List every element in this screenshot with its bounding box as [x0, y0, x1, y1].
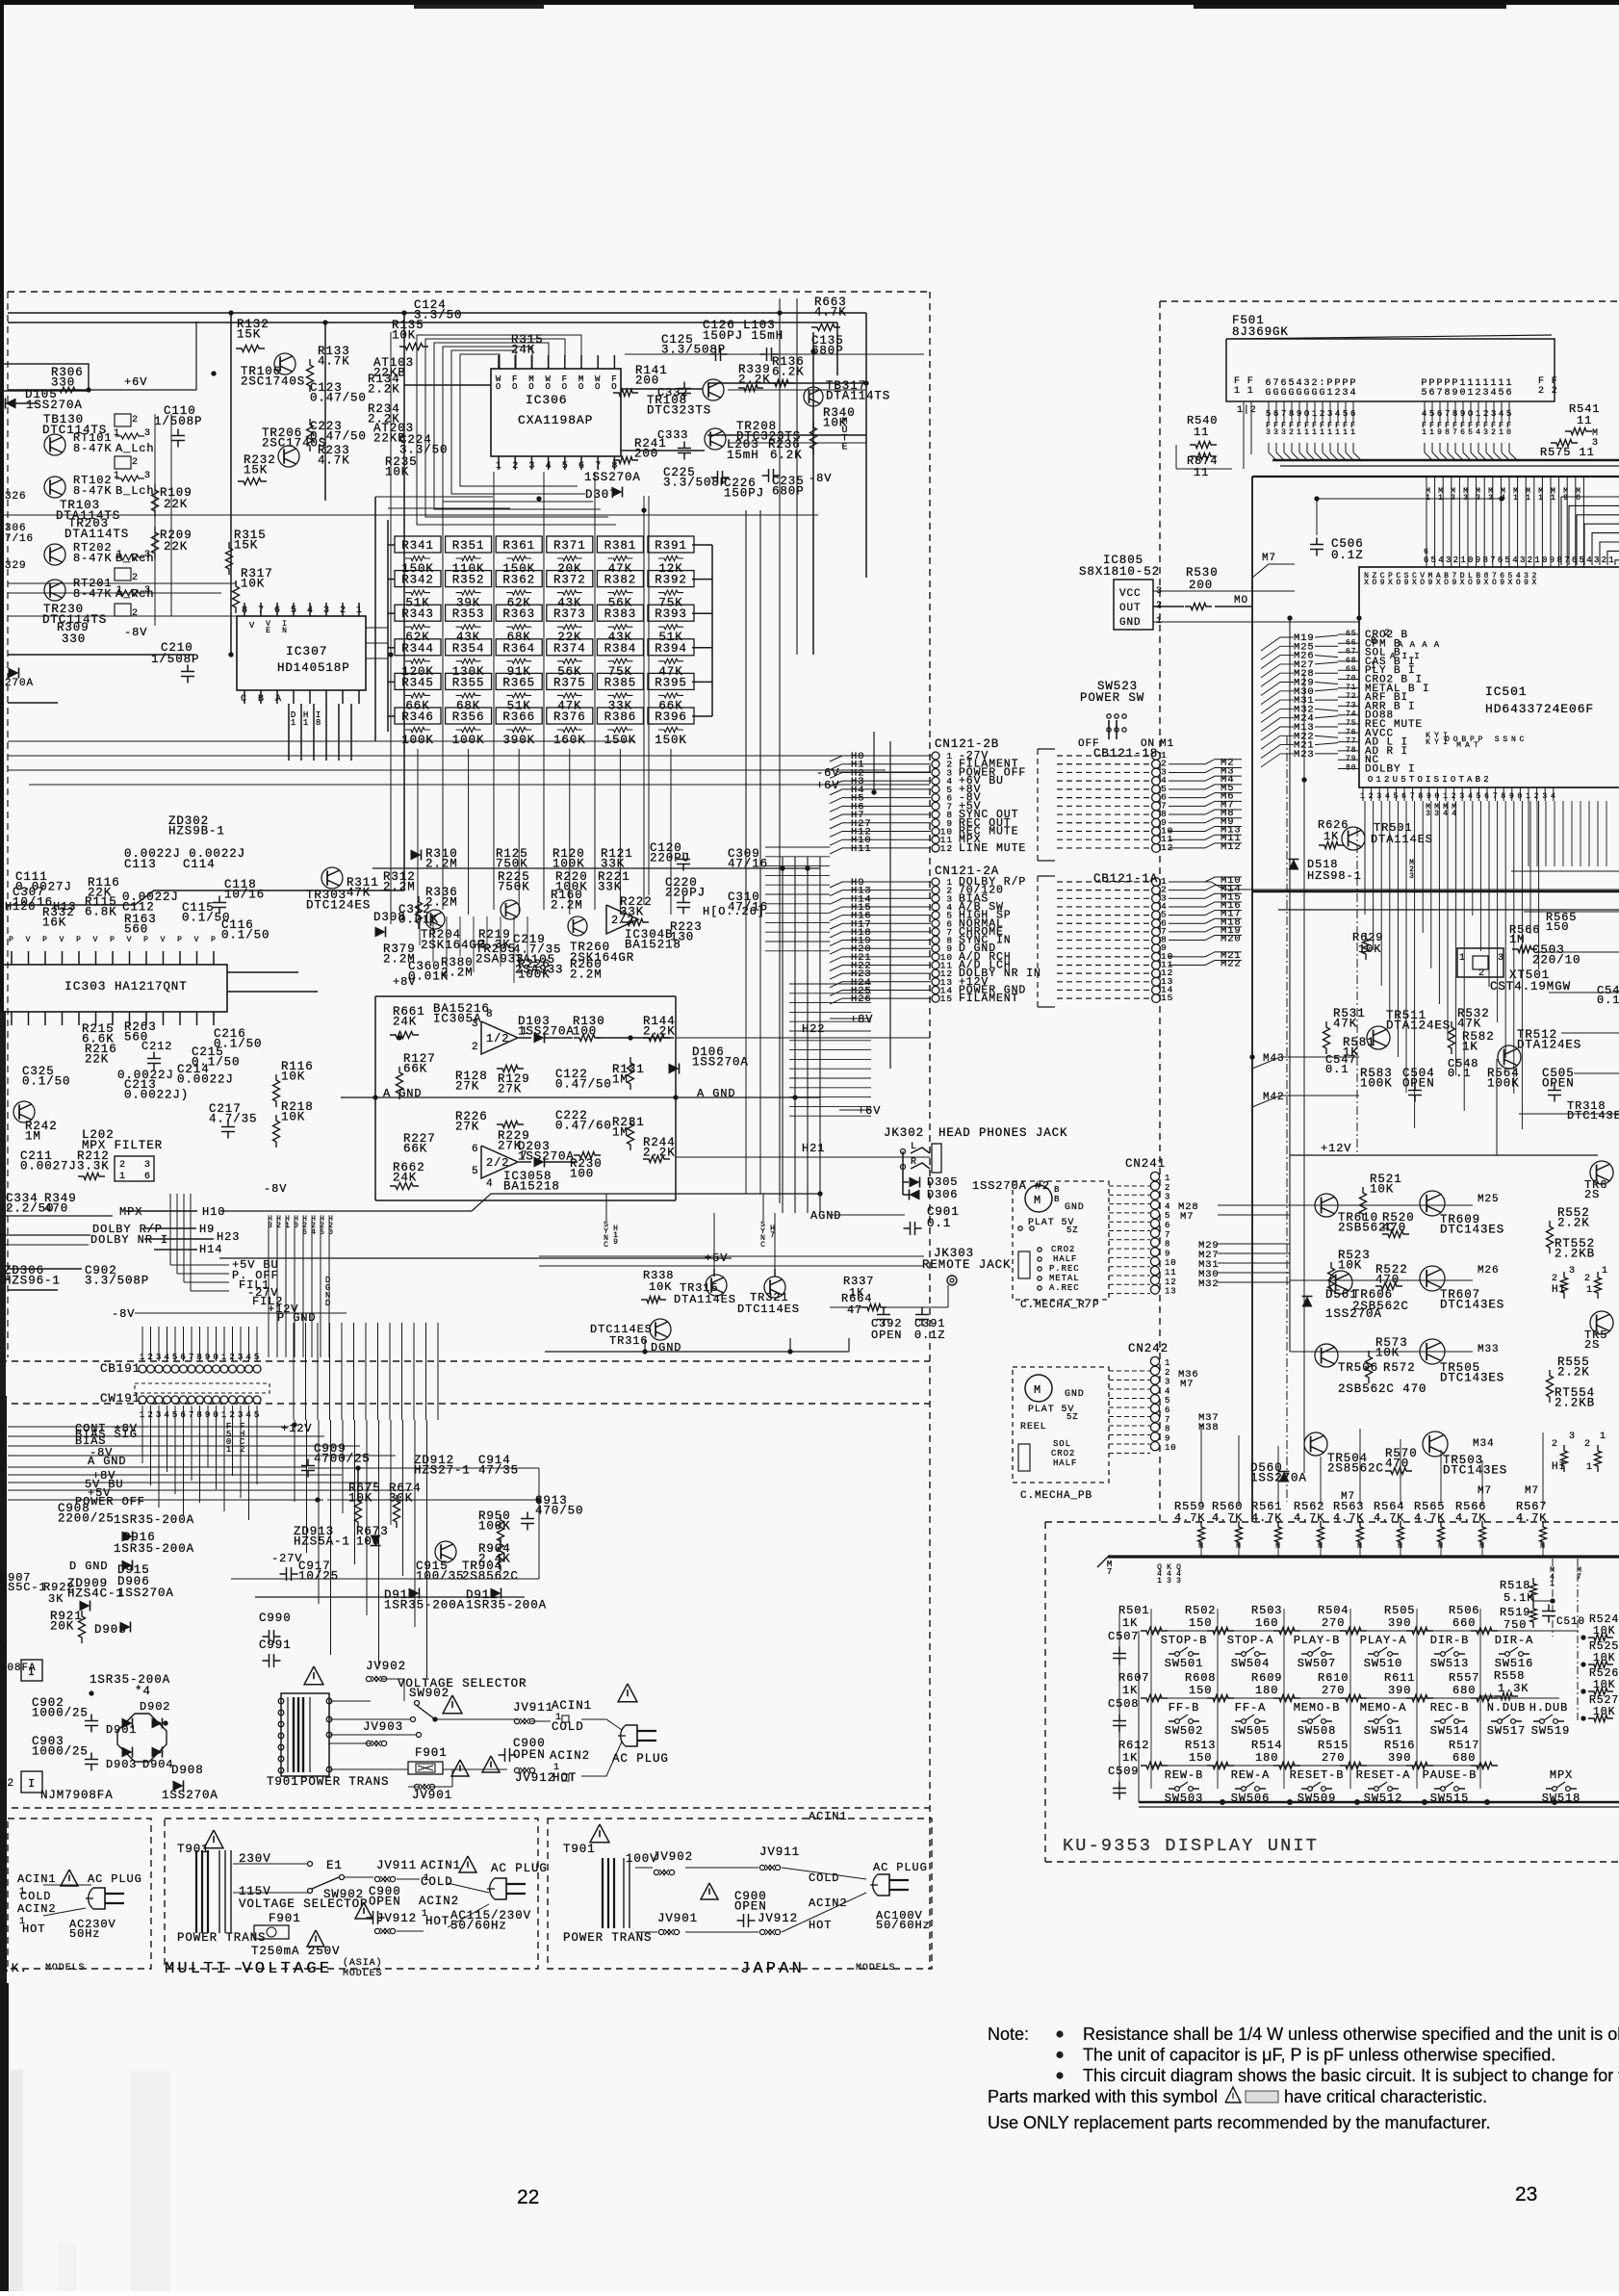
svg-text:1.3K: 1.3K	[1498, 1682, 1529, 1695]
svg-text:JV902: JV902	[366, 1660, 406, 1673]
svg-text:MEMO-A: MEMO-A	[1360, 1701, 1407, 1715]
svg-text:15K: 15K	[234, 538, 258, 552]
svg-text:0: 0	[1506, 428, 1512, 437]
svg-text:1: 1	[1312, 409, 1318, 419]
svg-text:O: O	[578, 382, 584, 392]
svg-text:T901: T901	[267, 1775, 299, 1789]
svg-text:R572: R572	[1383, 1361, 1416, 1375]
svg-text:1: 1	[116, 550, 123, 560]
svg-text:0.1: 0.1	[927, 1217, 951, 1230]
svg-text:ACIN2: ACIN2	[17, 1902, 57, 1916]
svg-text:T901: T901	[177, 1843, 210, 1856]
svg-text:5Z: 5Z	[1066, 1412, 1079, 1422]
svg-text:R355: R355	[452, 676, 485, 689]
svg-text:2SA933: 2SA933	[475, 952, 524, 966]
svg-text:M33: M33	[1478, 1344, 1500, 1355]
svg-text:4: 4	[1468, 792, 1474, 801]
svg-text:G: G	[1304, 388, 1311, 399]
svg-text:H26: H26	[851, 993, 872, 1005]
svg-text:1: 1	[1422, 428, 1427, 437]
svg-text:C: C	[241, 694, 247, 705]
svg-text:C507: C507	[1108, 1630, 1139, 1643]
svg-text:8-47K: 8-47K	[73, 484, 113, 498]
svg-text:HOT: HOT	[425, 1915, 450, 1928]
svg-text:3: 3	[1176, 1577, 1182, 1586]
svg-text:4: 4	[1551, 792, 1556, 801]
svg-text:C114: C114	[183, 858, 216, 871]
svg-text:DTC143ES: DTC143ES	[1440, 1223, 1504, 1236]
svg-text:1: 1	[221, 1353, 227, 1362]
svg-text:1: 1	[1157, 1577, 1163, 1586]
svg-text:5: 5	[1266, 409, 1272, 419]
svg-text:1: 1	[1499, 428, 1504, 437]
svg-text:390: 390	[1388, 1751, 1411, 1765]
svg-text:K: K	[1426, 738, 1431, 747]
svg-text:HEAD PHONES JACK: HEAD PHONES JACK	[938, 1126, 1067, 1140]
svg-text:DOLBY NR I: DOLBY NR I	[90, 1233, 168, 1247]
svg-text:M7: M7	[1525, 1485, 1539, 1497]
svg-text:SW514: SW514	[1430, 1724, 1470, 1738]
svg-text:X: X	[1484, 579, 1490, 587]
svg-text:1: 1	[119, 1172, 126, 1182]
svg-text:B: B	[1054, 1185, 1060, 1195]
svg-text:1M: 1M	[612, 1125, 629, 1139]
svg-text:Resistance shall be 1/4 W unle: Resistance shall be 1/4 W unless otherwi…	[1083, 2025, 1619, 2044]
svg-text:O: O	[1420, 579, 1426, 587]
svg-text:9: 9	[1437, 428, 1443, 437]
svg-text:O: O	[1492, 579, 1498, 587]
svg-text:SW507: SW507	[1298, 1657, 1337, 1670]
svg-text:33K: 33K	[598, 880, 622, 893]
svg-text:1|2: 1|2	[1237, 404, 1257, 416]
svg-text:6: 6	[1424, 555, 1429, 565]
svg-text:IC306: IC306	[526, 393, 568, 407]
svg-text:2: 2	[1335, 388, 1342, 399]
svg-text:9: 9	[1524, 579, 1529, 587]
svg-text:have critical characteristic.: have critical characteristic.	[1284, 2087, 1487, 2106]
svg-text:F901: F901	[269, 1912, 301, 1925]
svg-text:M32: M32	[1198, 1278, 1220, 1290]
svg-text:OFF: OFF	[1078, 738, 1100, 750]
svg-text:9: 9	[1426, 792, 1432, 801]
svg-text:9: 9	[1476, 579, 1481, 587]
svg-text:REW-B: REW-B	[1165, 1768, 1204, 1782]
svg-text:1: 1	[1526, 494, 1531, 503]
svg-text:N: N	[1511, 735, 1517, 744]
svg-text:H11: H11	[851, 843, 872, 855]
svg-text:IC303: IC303	[64, 979, 107, 993]
svg-text:67: 67	[1346, 648, 1356, 657]
svg-text:4: 4	[1422, 409, 1427, 419]
svg-text:8: 8	[1165, 1425, 1170, 1434]
svg-text:47/16: 47/16	[728, 900, 768, 914]
svg-text:DTA124ES: DTA124ES	[1517, 1038, 1581, 1051]
svg-text:22K: 22K	[164, 498, 188, 511]
svg-text:JV903: JV903	[363, 1720, 403, 1734]
svg-text:R558: R558	[1494, 1669, 1525, 1683]
svg-text:6: 6	[1429, 388, 1436, 399]
svg-text:RESET-A: RESET-A	[1356, 1768, 1411, 1782]
svg-text:5: 5	[1506, 409, 1512, 419]
svg-text:DTA124ES: DTA124ES	[1386, 1019, 1451, 1032]
svg-text:R362: R362	[502, 574, 535, 587]
svg-text:5: 5	[291, 606, 297, 616]
svg-text:680: 680	[1452, 1684, 1476, 1697]
svg-text:5: 5	[172, 1353, 178, 1362]
svg-text:6: 6	[472, 1144, 479, 1155]
svg-text:R609: R609	[1251, 1671, 1282, 1685]
svg-text:X: X	[1364, 579, 1370, 587]
svg-text:5: 5	[1468, 428, 1474, 437]
svg-text:150K: 150K	[604, 734, 637, 747]
svg-text:ACIN2: ACIN2	[550, 1749, 590, 1763]
svg-text:9: 9	[1500, 579, 1505, 587]
svg-text:4: 4	[1350, 388, 1357, 399]
svg-text:R557: R557	[1449, 1671, 1479, 1685]
svg-text:3: 3	[1266, 428, 1272, 437]
svg-text:6: 6	[274, 606, 281, 616]
svg-text:6: 6	[1165, 1221, 1170, 1230]
svg-text:10K: 10K	[281, 1070, 305, 1083]
svg-text:0.1/50: 0.1/50	[22, 1074, 70, 1088]
svg-text:DTC143ES: DTC143ES	[1440, 1298, 1504, 1311]
svg-text:R364: R364	[502, 642, 535, 656]
svg-text:150: 150	[1189, 1684, 1212, 1697]
svg-text:150K: 150K	[655, 734, 687, 747]
svg-text:6: 6	[1165, 1406, 1170, 1415]
svg-text:5Z: 5Z	[1066, 1225, 1079, 1235]
svg-text:R374: R374	[553, 642, 586, 656]
svg-text:0.47/60: 0.47/60	[555, 1119, 612, 1132]
svg-text:47K: 47K	[1457, 1017, 1481, 1030]
svg-text:66K: 66K	[403, 1062, 427, 1075]
svg-text:8-47K: 8-47K	[73, 552, 113, 565]
svg-text:TR506: TR506	[1338, 1361, 1378, 1375]
svg-text:R503: R503	[1251, 1604, 1282, 1617]
svg-text:1M: 1M	[25, 1129, 41, 1143]
svg-text:1SS270A: 1SS270A	[26, 399, 83, 412]
svg-text:1K: 1K	[1122, 1616, 1138, 1630]
svg-text:9: 9	[1404, 579, 1410, 587]
svg-text:R345: R345	[401, 676, 434, 689]
svg-text:M7: M7	[1180, 1211, 1194, 1223]
svg-text:80: 80	[1346, 764, 1356, 773]
svg-text:1: 1	[1602, 1266, 1608, 1277]
svg-text:12: 12	[1165, 1277, 1177, 1287]
svg-text:D908: D908	[171, 1764, 204, 1777]
svg-text:4.7K: 4.7K	[318, 354, 350, 368]
svg-text:CN242: CN242	[1128, 1342, 1169, 1355]
svg-text:REMOTE JACK: REMOTE JACK	[922, 1258, 1011, 1272]
svg-text:JV911: JV911	[759, 1845, 800, 1859]
svg-text:1: 1	[140, 1353, 145, 1362]
svg-text:AC PLUG: AC PLUG	[491, 1862, 548, 1875]
svg-text:1: 1	[1165, 1358, 1170, 1368]
svg-text:A A A A: A A A A	[1398, 640, 1440, 650]
svg-text:HD6433724E06F: HD6433724E06F	[1485, 702, 1594, 716]
svg-text:AGND: AGND	[810, 1209, 841, 1223]
svg-text:JK302: JK302	[884, 1126, 924, 1140]
svg-text:C508: C508	[1108, 1697, 1139, 1711]
svg-text:0.1Z: 0.1Z	[1331, 549, 1364, 562]
svg-text:330: 330	[62, 632, 86, 646]
svg-text:8: 8	[1501, 792, 1506, 801]
svg-text:11: 11	[1194, 466, 1209, 479]
svg-text:4: 4	[1165, 1386, 1170, 1396]
svg-text:2S8562C: 2S8562C	[462, 1569, 519, 1583]
svg-text:MODELS: MODELS	[45, 1963, 85, 1974]
svg-text:76: 76	[1346, 728, 1356, 736]
svg-text:R363: R363	[502, 607, 535, 621]
svg-text:3: 3	[1520, 555, 1526, 565]
svg-text:6: 6	[1273, 409, 1279, 419]
svg-text:6.2K: 6.2K	[770, 449, 803, 462]
svg-text:SW519: SW519	[1531, 1724, 1571, 1738]
svg-text:OPEN: OPEN	[1542, 1076, 1575, 1090]
svg-text:8: 8	[196, 1353, 202, 1362]
svg-text:R517: R517	[1449, 1739, 1479, 1752]
svg-text:+6V: +6V	[816, 779, 839, 792]
svg-text:C.MECHA_PB: C.MECHA_PB	[1020, 1490, 1092, 1502]
svg-text:X: X	[1412, 579, 1418, 587]
svg-text:R343: R343	[401, 607, 434, 621]
svg-text:ACIN1: ACIN1	[17, 1872, 57, 1886]
svg-text:T250mA 250V: T250mA 250V	[251, 1945, 340, 1958]
svg-text:AC PLUG: AC PLUG	[612, 1752, 669, 1766]
svg-text:66K: 66K	[403, 1142, 427, 1155]
svg-text:1: 1	[291, 718, 296, 728]
svg-text:2: 2	[1453, 555, 1459, 565]
svg-text:8: 8	[1556, 555, 1562, 565]
svg-text:1: 1	[1551, 494, 1556, 503]
svg-text:73: 73	[1346, 701, 1356, 709]
svg-text:R610: R610	[1318, 1671, 1349, 1685]
svg-text:R608: R608	[1185, 1671, 1216, 1685]
svg-text:O: O	[1372, 579, 1377, 587]
svg-text:R375: R375	[553, 676, 586, 689]
svg-text:-8V: -8V	[264, 1182, 287, 1196]
svg-text:27K: 27K	[498, 1082, 522, 1096]
svg-text:JV901: JV901	[412, 1789, 452, 1802]
svg-text:R346: R346	[401, 710, 434, 724]
svg-text:P: P	[76, 936, 82, 944]
svg-text:P: P	[143, 936, 149, 944]
svg-text:R361: R361	[502, 539, 535, 553]
svg-text:6: 6	[1498, 555, 1503, 565]
svg-text:HZS96-1: HZS96-1	[4, 1274, 61, 1287]
svg-text:DTC114ES: DTC114ES	[737, 1303, 800, 1316]
svg-text:Parts marked with this symbol: Parts marked with this symbol	[988, 2087, 1218, 2106]
svg-text:10: 10	[1165, 1443, 1177, 1453]
svg-text:100: 100	[570, 1167, 594, 1180]
svg-text:C113: C113	[124, 858, 157, 871]
svg-text:100/35: 100/35	[416, 1569, 464, 1583]
svg-text:VOLTAGE SELECTOR: VOLTAGE SELECTOR	[239, 1897, 368, 1911]
svg-text:9: 9	[1563, 494, 1569, 503]
svg-text:2/2: 2/2	[611, 914, 634, 927]
svg-text:2: 2	[1320, 409, 1325, 419]
svg-text:2: 2	[1602, 555, 1607, 565]
svg-text:2200/25: 2200/25	[58, 1511, 115, 1525]
svg-text:-8V: -8V	[112, 1307, 135, 1321]
svg-text:C991: C991	[259, 1638, 292, 1652]
svg-text:M7: M7	[1478, 1485, 1492, 1497]
svg-text:9: 9	[1509, 792, 1515, 801]
svg-text:D902: D902	[140, 1700, 170, 1714]
svg-text:JV912: JV912	[515, 1771, 555, 1785]
svg-text:680: 680	[1452, 1751, 1476, 1765]
svg-text:2: 2	[240, 1445, 245, 1455]
svg-text:JAPAN: JAPAN	[740, 1960, 805, 1978]
svg-text:SW510: SW510	[1364, 1657, 1403, 1670]
svg-text:2: 2	[1476, 388, 1482, 399]
svg-text:P.REC: P.REC	[1049, 1264, 1080, 1274]
svg-text:0.1/50: 0.1/50	[221, 928, 270, 942]
svg-text:JV912: JV912	[376, 1912, 417, 1925]
svg-text:FF-B: FF-B	[1169, 1701, 1199, 1715]
svg-text:2.2KB: 2.2KB	[1555, 1247, 1595, 1260]
svg-text:V: V	[60, 936, 65, 944]
svg-text:C212: C212	[141, 1040, 172, 1053]
svg-text:SW502: SW502	[1165, 1724, 1204, 1738]
svg-text:0: 0	[1460, 388, 1467, 399]
svg-text:100K: 100K	[478, 1519, 511, 1533]
svg-text:SW902: SW902	[409, 1687, 450, 1700]
svg-text:G: G	[1281, 388, 1288, 399]
svg-text:2SB562C 470: 2SB562C 470	[1338, 1382, 1426, 1396]
svg-text:1SR35-200A: 1SR35-200A	[90, 1673, 170, 1687]
svg-text:A GND: A GND	[88, 1455, 127, 1468]
svg-text:0.47/50: 0.47/50	[310, 391, 367, 404]
svg-text:H22: H22	[802, 1022, 825, 1036]
svg-text:4: 4	[1438, 555, 1444, 565]
svg-text:R373: R373	[553, 607, 586, 621]
svg-text:R372: R372	[553, 574, 586, 587]
svg-text:75: 75	[1346, 719, 1356, 728]
svg-text:0.47/50: 0.47/50	[310, 429, 367, 443]
svg-text:R341: R341	[401, 539, 434, 553]
svg-text:24K: 24K	[393, 1015, 417, 1028]
svg-text:DTA114ES: DTA114ES	[674, 1293, 736, 1306]
svg-text:R356: R356	[452, 710, 485, 724]
svg-text:1/2: 1/2	[486, 1032, 509, 1045]
svg-text:1: 1	[1375, 775, 1381, 785]
svg-text:G: G	[1312, 388, 1319, 399]
svg-text:M7: M7	[1262, 553, 1276, 564]
svg-text:5: 5	[1505, 555, 1511, 565]
svg-text:R530: R530	[1186, 566, 1219, 580]
svg-text:0: 0	[1435, 792, 1441, 801]
svg-text:D305: D305	[927, 1175, 958, 1189]
svg-text:N: N	[282, 627, 288, 635]
svg-text:5: 5	[1343, 409, 1349, 419]
svg-text:1 1: 1 1	[1234, 386, 1254, 397]
svg-text:M1: M1	[1160, 738, 1174, 750]
svg-text:1: 1	[0, 1644, 8, 1656]
svg-text:R501: R501	[1118, 1604, 1149, 1617]
svg-text:1: 1	[1534, 555, 1540, 565]
svg-text:JV912: JV912	[758, 1912, 798, 1925]
svg-text:O: O	[1453, 735, 1459, 744]
svg-text:P: P	[110, 936, 116, 944]
svg-text:*4: *4	[135, 1685, 151, 1698]
svg-text:M: M	[1034, 1194, 1041, 1207]
svg-text:R382: R382	[604, 574, 637, 587]
svg-text:V: V	[93, 936, 99, 944]
svg-text:4: 4	[486, 1178, 494, 1190]
svg-text:1: 1	[1586, 1285, 1593, 1296]
svg-text:R354: R354	[452, 642, 485, 656]
svg-text:I: I	[1426, 775, 1431, 785]
svg-text:2.2M: 2.2M	[570, 967, 603, 981]
svg-text:1: 1	[1327, 388, 1334, 399]
svg-text:2: 2	[1534, 792, 1540, 801]
svg-text:3: 3	[528, 461, 535, 472]
svg-text:1SS270A: 1SS270A	[584, 471, 641, 484]
svg-text:50Hz: 50Hz	[69, 1927, 100, 1941]
svg-text:3: 3	[472, 1019, 479, 1030]
svg-text:O: O	[528, 382, 534, 392]
svg-text:9: 9	[1165, 1433, 1170, 1443]
svg-text:3: 3	[144, 550, 151, 560]
svg-text:5: 5	[1431, 555, 1437, 565]
svg-text:1: 1	[1443, 792, 1449, 801]
svg-text:2: 2	[1369, 792, 1375, 801]
svg-text:POWER TRANS: POWER TRANS	[563, 1931, 652, 1945]
svg-text:4.7K: 4.7K	[814, 305, 847, 319]
svg-text:0: 0	[294, 1222, 299, 1230]
svg-text:AC PLUG: AC PLUG	[88, 1872, 142, 1886]
svg-text:68: 68	[1346, 657, 1356, 665]
svg-text:8: 8	[316, 718, 321, 728]
svg-text:0.0022J): 0.0022J)	[124, 1088, 189, 1101]
svg-text:160K: 160K	[553, 734, 586, 747]
svg-text:4: 4	[1491, 388, 1498, 399]
svg-text:1: 1	[1335, 428, 1341, 437]
svg-text:COLD: COLD	[20, 1890, 51, 1903]
svg-text:C509: C509	[1108, 1765, 1139, 1778]
svg-text:T: T	[1409, 775, 1415, 785]
svg-text:SW516: SW516	[1495, 1657, 1534, 1670]
svg-text:D904: D904	[142, 1758, 173, 1771]
svg-text:2: 2	[1552, 1274, 1558, 1284]
svg-text:ZS5C-1: ZS5C-1	[0, 1581, 47, 1594]
svg-text:KU-9353 DISPLAY UNIT: KU-9353 DISPLAY UNIT	[1063, 1836, 1319, 1856]
svg-text:PLAY-A: PLAY-A	[1360, 1634, 1407, 1647]
svg-text:S: S	[1495, 735, 1501, 744]
svg-text:2: 2	[229, 1353, 235, 1362]
svg-text:POWER TRANS: POWER TRANS	[177, 1931, 266, 1945]
svg-text:.K.: .K.	[3, 1961, 28, 1975]
svg-text:200: 200	[635, 374, 659, 387]
svg-text:R396: R396	[655, 710, 687, 724]
svg-text:GND: GND	[1119, 617, 1142, 629]
svg-text:O: O	[562, 382, 568, 392]
svg-text:1: 1	[114, 428, 120, 439]
svg-text:E1: E1	[326, 1859, 343, 1872]
svg-text:7: 7	[1410, 792, 1416, 801]
svg-text:T901: T901	[563, 1843, 596, 1856]
svg-text:2.2K: 2.2K	[643, 1024, 676, 1038]
svg-text:NJM7908FA: NJM7908FA	[40, 1789, 114, 1802]
svg-text:6.2K: 6.2K	[772, 365, 805, 378]
svg-text:COLD: COLD	[421, 1875, 453, 1889]
svg-text:11: 11	[1577, 414, 1592, 427]
svg-text:F901: F901	[415, 1746, 448, 1760]
svg-text:6: 6	[1437, 409, 1443, 419]
svg-text:CB121-1A: CB121-1A	[1093, 872, 1158, 886]
svg-text:1M: 1M	[612, 1072, 629, 1086]
